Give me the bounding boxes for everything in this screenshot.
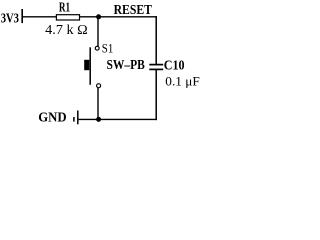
svg-text:3V3: 3V3 xyxy=(1,11,19,26)
wire junction to switch top terminal xyxy=(97,17,99,46)
wire C10 to bottom rail xyxy=(155,70,157,121)
svg-text:S1: S1 xyxy=(102,41,114,55)
wire switch bottom terminal to GND rail xyxy=(97,88,99,120)
power port GND xyxy=(38,109,78,124)
svg-text:GND: GND xyxy=(38,109,67,124)
wire R1 to corner xyxy=(80,16,157,18)
svg-text:0.1 μF: 0.1 μF xyxy=(165,75,200,89)
wire bottom rail (GND) xyxy=(79,118,157,120)
junction dot bottom (node GND) xyxy=(96,117,101,122)
power port 3V3 xyxy=(1,9,23,26)
switch S1 (SW-PB) xyxy=(84,41,145,87)
svg-text:RESET: RESET xyxy=(114,3,153,18)
wire 3V3 to R1 xyxy=(22,16,57,18)
capacitor C10 xyxy=(149,57,185,72)
svg-text:SW–PB: SW–PB xyxy=(107,57,145,72)
svg-text:R1: R1 xyxy=(59,1,70,16)
resistor R1 xyxy=(56,1,79,21)
wire corner down to C10 xyxy=(155,16,157,64)
junction dot top (node RESET) xyxy=(96,14,101,19)
svg-text:C10: C10 xyxy=(164,57,185,72)
svg-text:4.7 k Ω: 4.7 k Ω xyxy=(45,23,87,38)
